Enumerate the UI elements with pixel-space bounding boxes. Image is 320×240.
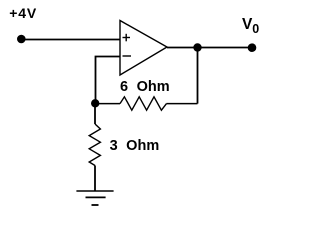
ground: [76, 191, 113, 205]
svg-text:+4V: +4V: [9, 5, 37, 21]
wire resistor R1 to feedback vertical: [167, 103, 198, 105]
wire feedback vertical to output node: [197, 48, 199, 104]
node feedback junction: [91, 99, 99, 107]
svg-text:6 Ohm: 6 Ohm: [120, 79, 170, 95]
wire resistor R2 to ground: [94, 166, 96, 192]
svg-text:3 Ohm: 3 Ohm: [110, 138, 160, 154]
node Vo terminal: [248, 43, 257, 52]
wire inverting input to feedback junction: [96, 57, 121, 104]
wire op-amp output to Vo terminal: [167, 47, 252, 49]
node output junction: [193, 43, 201, 51]
op-amp U1: [120, 21, 167, 76]
label Vo: [242, 16, 259, 36]
node +4V input terminal: [17, 35, 26, 44]
wire junction to resistor R1: [95, 103, 120, 105]
wire junction to resistor R2: [94, 103, 96, 124]
wire +4V terminal to op-amp non-inverting input: [21, 39, 120, 41]
resistor R1 6 Ohm: [120, 97, 167, 110]
resistor R2 3 Ohm: [89, 124, 100, 166]
svg-text:0: 0: [252, 22, 259, 36]
